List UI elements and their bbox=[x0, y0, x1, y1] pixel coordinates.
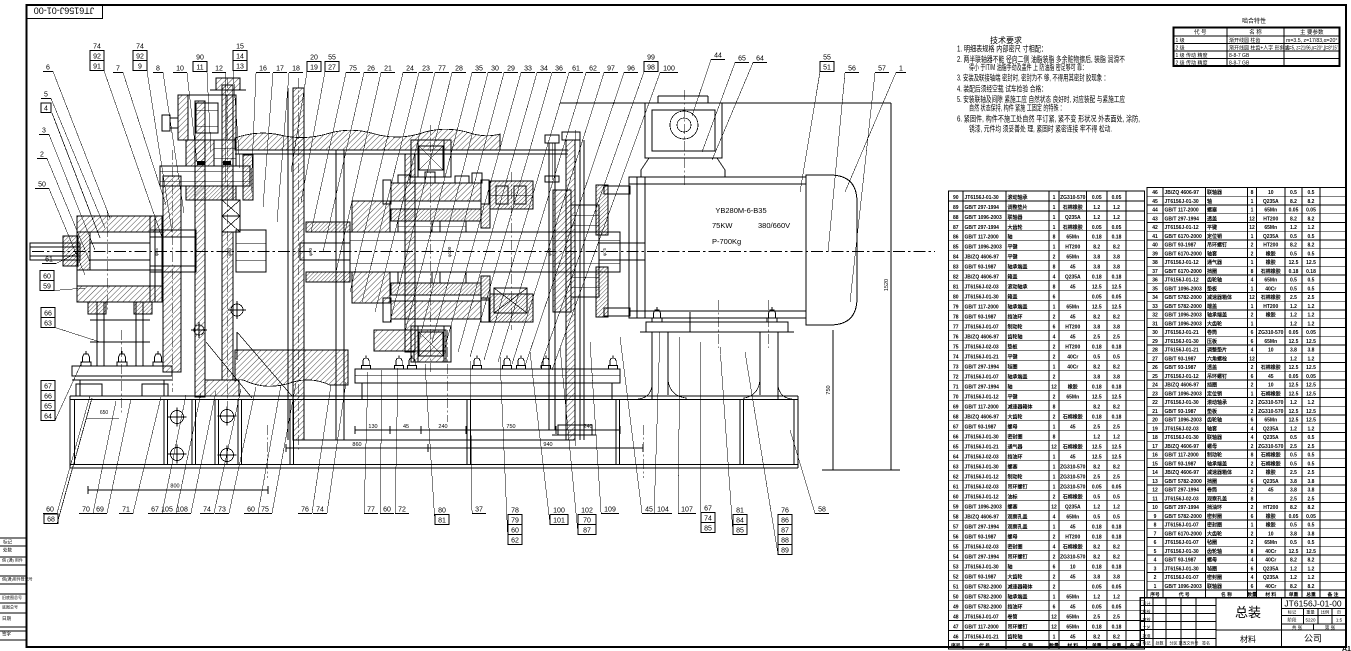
svg-text:10: 10 bbox=[1268, 348, 1274, 354]
gear web hole bbox=[228, 301, 246, 319]
svg-text:减速器箱体: 减速器箱体 bbox=[1207, 469, 1233, 476]
svg-text:42: 42 bbox=[1152, 225, 1158, 231]
svg-text:JT6156J-01-21: JT6156J-01-21 bbox=[965, 355, 999, 361]
balloon 64 bbox=[712, 56, 767, 161]
svg-text:Q235A: Q235A bbox=[1263, 566, 1279, 572]
svg-text:12.5: 12.5 bbox=[1112, 305, 1122, 311]
svg-text:12: 12 bbox=[215, 66, 223, 73]
svg-text:1 级: 1 级 bbox=[1176, 37, 1185, 44]
svg-text:65Mn: 65Mn bbox=[1066, 594, 1079, 600]
svg-text:JT6156J-01-30: JT6156J-01-30 bbox=[1165, 400, 1199, 406]
balloon stack 55 27 bbox=[301, 55, 339, 203]
balloon stack 99 98 bbox=[540, 55, 658, 369]
svg-text:1.2: 1.2 bbox=[1308, 313, 1315, 319]
svg-text:通气器: 通气器 bbox=[1008, 444, 1024, 451]
svg-text:密封圈: 密封圈 bbox=[1008, 434, 1023, 441]
svg-text:32: 32 bbox=[1152, 313, 1158, 319]
svg-text:61: 61 bbox=[953, 484, 959, 490]
svg-text:3.8: 3.8 bbox=[1113, 325, 1120, 331]
svg-text:φ90: φ90 bbox=[547, 248, 552, 256]
svg-text:2: 2 bbox=[1053, 255, 1056, 261]
svg-text:84: 84 bbox=[953, 255, 959, 261]
svg-text:1.2: 1.2 bbox=[1290, 566, 1297, 572]
svg-text:GB/T 5782-2000: GB/T 5782-2000 bbox=[1165, 514, 1202, 520]
svg-text:10: 10 bbox=[176, 66, 184, 73]
svg-text:平键: 平键 bbox=[1008, 244, 1019, 251]
svg-text:45: 45 bbox=[1070, 455, 1076, 461]
svg-text:1.2: 1.2 bbox=[1113, 215, 1120, 221]
svg-text:挡油环: 挡油环 bbox=[1206, 504, 1222, 511]
svg-text:0.5: 0.5 bbox=[1308, 278, 1315, 284]
svg-text:轴承端盖: 轴承端盖 bbox=[1008, 264, 1028, 271]
svg-text:6: 6 bbox=[1053, 295, 1056, 301]
svg-text:52: 52 bbox=[953, 574, 959, 580]
svg-text:JB/ZQ 4606-97: JB/ZQ 4606-97 bbox=[1165, 444, 1200, 450]
svg-text:2.5: 2.5 bbox=[1093, 425, 1100, 431]
svg-text:毡圈: 毡圈 bbox=[1007, 364, 1018, 371]
balloon 56 bbox=[828, 66, 859, 253]
base bolt hole 1 bbox=[168, 408, 187, 427]
svg-text:2: 2 bbox=[1251, 505, 1254, 511]
svg-text:JT6156J-01-30: JT6156J-01-30 bbox=[965, 464, 999, 470]
svg-text:挡油环: 挡油环 bbox=[1007, 603, 1023, 610]
svg-text:0.5: 0.5 bbox=[1290, 234, 1297, 240]
svg-text:860: 860 bbox=[352, 442, 361, 448]
svg-text:垫板: 垫板 bbox=[1008, 344, 1019, 351]
svg-text:吊环螺钉: 吊环螺钉 bbox=[1207, 373, 1227, 380]
svg-text:8.2: 8.2 bbox=[1093, 315, 1100, 321]
svg-text:12.5: 12.5 bbox=[1289, 365, 1299, 371]
svg-text:比例: 比例 bbox=[1321, 609, 1329, 616]
svg-text:密封圈: 密封圈 bbox=[1207, 574, 1222, 581]
svg-text:0.5: 0.5 bbox=[1308, 251, 1315, 257]
svg-text:JB/ZQ 4606-97: JB/ZQ 4606-97 bbox=[965, 514, 1000, 520]
svg-text:JT6156J-01-30: JT6156J-01-30 bbox=[965, 435, 999, 441]
svg-text:GB/T 6170-2000: GB/T 6170-2000 bbox=[1165, 269, 1202, 275]
svg-text:1: 1 bbox=[1251, 208, 1254, 214]
svg-text:3.8: 3.8 bbox=[1290, 488, 1297, 494]
balloon 67 at x155 bbox=[148, 395, 186, 514]
svg-text:12.5: 12.5 bbox=[1306, 409, 1316, 415]
svg-text:67: 67 bbox=[953, 425, 959, 431]
svg-text:GB/T 93-1987: GB/T 93-1987 bbox=[1165, 461, 1197, 467]
svg-text:34: 34 bbox=[1152, 295, 1158, 301]
balloon 76 at x305 bbox=[298, 385, 331, 514]
svg-text:GB/T 93-1987: GB/T 93-1987 bbox=[1165, 365, 1197, 371]
svg-text:1.2: 1.2 bbox=[1308, 575, 1315, 581]
svg-text:58: 58 bbox=[818, 507, 826, 514]
svg-text:12: 12 bbox=[1249, 216, 1255, 222]
svg-text:8.2: 8.2 bbox=[1290, 243, 1297, 249]
svg-text:1: 1 bbox=[1053, 524, 1056, 530]
svg-text:3.8: 3.8 bbox=[1308, 479, 1315, 485]
svg-text:81: 81 bbox=[736, 508, 744, 515]
drum hub bands bbox=[306, 222, 350, 282]
svg-text:总装: 总装 bbox=[1235, 605, 1261, 620]
svg-text:62: 62 bbox=[953, 474, 959, 480]
svg-text:挡圈: 挡圈 bbox=[1206, 268, 1217, 275]
svg-text:38: 38 bbox=[1152, 260, 1158, 266]
svg-text:12.5: 12.5 bbox=[1289, 260, 1299, 266]
svg-text:JT6156J-01-12: JT6156J-01-12 bbox=[965, 474, 999, 480]
svg-text:109: 109 bbox=[604, 507, 616, 514]
balloon 62 bbox=[498, 66, 600, 363]
svg-text:55: 55 bbox=[328, 55, 336, 62]
svg-text:17: 17 bbox=[276, 66, 284, 73]
balloon 108 at x182 bbox=[173, 391, 216, 514]
svg-text:0.18: 0.18 bbox=[1112, 534, 1122, 540]
svg-text:65Mn: 65Mn bbox=[1264, 540, 1277, 546]
drum shell lines bbox=[235, 150, 568, 440]
svg-text:68: 68 bbox=[47, 517, 55, 524]
svg-text:3.8: 3.8 bbox=[1308, 531, 1315, 537]
motor foot bolt left bbox=[652, 307, 662, 322]
svg-text:3.8: 3.8 bbox=[1093, 265, 1100, 271]
balloon 26 bbox=[323, 66, 378, 253]
svg-text:JT6156J-02-03: JT6156J-02-03 bbox=[965, 345, 999, 351]
svg-text:62: 62 bbox=[511, 538, 519, 545]
balloon 5 bbox=[41, 92, 105, 229]
svg-text:60: 60 bbox=[43, 274, 51, 281]
svg-text:12.5: 12.5 bbox=[1092, 445, 1102, 451]
svg-text:垫板: 垫板 bbox=[1207, 285, 1218, 292]
svg-text:旧底图总号: 旧底图总号 bbox=[2, 594, 22, 600]
svg-text:65Mn: 65Mn bbox=[1264, 418, 1277, 424]
svg-text:2: 2 bbox=[1251, 409, 1254, 415]
balloon 30 bbox=[420, 66, 502, 338]
svg-text:71: 71 bbox=[122, 507, 130, 514]
svg-text:2: 2 bbox=[1053, 584, 1056, 590]
svg-text:63: 63 bbox=[44, 321, 52, 328]
svg-text:单重: 单重 bbox=[1289, 591, 1299, 598]
svg-text:1: 1 bbox=[1251, 391, 1254, 397]
right BOM header row bbox=[1147, 590, 1346, 598]
svg-text:Q235A: Q235A bbox=[1263, 575, 1279, 581]
svg-text:JT6156J-01-00: JT6156J-01-00 bbox=[34, 5, 95, 15]
svg-text:8: 8 bbox=[1251, 190, 1254, 196]
svg-text:HT200: HT200 bbox=[1065, 534, 1080, 540]
svg-text:大齿轮: 大齿轮 bbox=[1008, 224, 1023, 231]
dimension row A bbox=[355, 424, 620, 434]
svg-text:轴套: 轴套 bbox=[1207, 425, 1217, 432]
flange bolt 7 bbox=[542, 356, 551, 370]
svg-text:1.2: 1.2 bbox=[1093, 205, 1100, 211]
svg-text:45: 45 bbox=[1070, 604, 1076, 610]
vertical dimension R bbox=[560, 103, 891, 470]
balloon stack 15 14 13 bbox=[233, 44, 247, 169]
svg-text:GB/T 93-1987: GB/T 93-1987 bbox=[965, 534, 997, 540]
svg-text:12: 12 bbox=[1249, 225, 1255, 231]
svg-text:2.5: 2.5 bbox=[1113, 474, 1120, 480]
svg-text:12.5: 12.5 bbox=[1306, 418, 1316, 424]
svg-text:41: 41 bbox=[1152, 234, 1158, 240]
svg-text:2: 2 bbox=[1053, 355, 1056, 361]
svg-text:JT6156J-02-03: JT6156J-02-03 bbox=[965, 544, 999, 550]
svg-text:1: 1 bbox=[1154, 584, 1157, 590]
svg-text:螺母: 螺母 bbox=[1008, 533, 1018, 540]
svg-text:40Cr: 40Cr bbox=[1265, 549, 1276, 555]
svg-text:JT6156J-01-07: JT6156J-01-07 bbox=[965, 375, 999, 381]
svg-text:GB/T 297-1994: GB/T 297-1994 bbox=[965, 385, 1000, 391]
svg-text:底图总号: 底图总号 bbox=[2, 604, 18, 610]
svg-text:12.5: 12.5 bbox=[1112, 285, 1122, 291]
svg-text:调整垫片: 调整垫片 bbox=[1207, 347, 1227, 354]
svg-text:GB/T 1096-2003: GB/T 1096-2003 bbox=[965, 245, 1002, 251]
svg-text:2.5: 2.5 bbox=[1093, 614, 1100, 620]
bearing below brake shaft bbox=[222, 200, 240, 232]
svg-text:0.18: 0.18 bbox=[1289, 269, 1299, 275]
svg-text:8.2: 8.2 bbox=[1113, 315, 1120, 321]
svg-text:标记: 标记 bbox=[3, 539, 12, 546]
svg-text:240: 240 bbox=[583, 424, 592, 430]
svg-text:2.5: 2.5 bbox=[1308, 470, 1315, 476]
balloon 21 bbox=[336, 66, 395, 273]
svg-text:石棉橡胶: 石棉橡胶 bbox=[1062, 543, 1083, 550]
balloon stack 78 79 60 62 bbox=[500, 357, 522, 545]
base left dim 650 bbox=[86, 410, 119, 419]
motor leg left bbox=[638, 332, 686, 400]
svg-text:3.8: 3.8 bbox=[1290, 479, 1297, 485]
svg-text:1 级 传动 精度: 1 级 传动 精度 bbox=[1176, 52, 1208, 59]
svg-text:4: 4 bbox=[1053, 275, 1056, 281]
flange bolt 8 bbox=[609, 356, 618, 370]
svg-text:JT6156J-01-30: JT6156J-01-30 bbox=[1165, 566, 1199, 572]
svg-text:87: 87 bbox=[583, 528, 591, 535]
svg-text:0.5: 0.5 bbox=[1290, 286, 1297, 292]
svg-text:平键: 平键 bbox=[1008, 394, 1019, 401]
svg-text:6: 6 bbox=[1251, 330, 1254, 336]
svg-text:卷筒: 卷筒 bbox=[1206, 329, 1217, 336]
svg-text:26: 26 bbox=[367, 66, 375, 73]
balloon 10 bbox=[173, 66, 197, 163]
svg-text:22: 22 bbox=[1152, 400, 1158, 406]
svg-text:24: 24 bbox=[406, 66, 414, 73]
svg-text:HT200: HT200 bbox=[1263, 304, 1278, 310]
balloon 71 at x126 bbox=[119, 397, 161, 514]
svg-text:0.05: 0.05 bbox=[1112, 295, 1122, 301]
svg-text:吊环螺钉: 吊环螺钉 bbox=[1207, 242, 1227, 249]
svg-text:44: 44 bbox=[1152, 208, 1158, 214]
svg-text:渐开线圆 柱齿: 渐开线圆 柱齿 bbox=[1229, 37, 1260, 44]
svg-text:88: 88 bbox=[953, 215, 959, 221]
svg-text:37: 37 bbox=[1152, 269, 1158, 275]
svg-text:1.2: 1.2 bbox=[1290, 313, 1297, 319]
svg-text:1.2: 1.2 bbox=[1308, 225, 1315, 231]
svg-text:750: 750 bbox=[506, 424, 515, 430]
svg-text:代 号: 代 号 bbox=[978, 642, 990, 649]
balloon 16 bbox=[251, 66, 270, 193]
svg-text:65Mn: 65Mn bbox=[1264, 208, 1277, 214]
svg-text:12.5: 12.5 bbox=[1289, 418, 1299, 424]
balloon stack 66 63 bbox=[41, 308, 100, 343]
svg-text:59: 59 bbox=[953, 504, 959, 510]
diameter labels bbox=[154, 246, 607, 257]
svg-text:0.18: 0.18 bbox=[1112, 235, 1122, 241]
svg-text:卷筒: 卷筒 bbox=[1007, 613, 1018, 620]
svg-text:GB/T 1096-2003: GB/T 1096-2003 bbox=[1165, 418, 1202, 424]
svg-text:平键: 平键 bbox=[1207, 224, 1218, 231]
svg-text:48: 48 bbox=[953, 614, 959, 620]
balloon 1 bbox=[845, 66, 906, 193]
svg-text:12.5: 12.5 bbox=[1112, 455, 1122, 461]
svg-text:3.8: 3.8 bbox=[1113, 574, 1120, 580]
balloon 75 at x265 bbox=[258, 383, 296, 514]
svg-text:12: 12 bbox=[1051, 385, 1057, 391]
svg-text:定位销: 定位销 bbox=[1206, 390, 1222, 397]
svg-text:4: 4 bbox=[1251, 558, 1254, 564]
svg-text:65Mn: 65Mn bbox=[1066, 255, 1079, 261]
svg-text:26: 26 bbox=[1152, 365, 1158, 371]
svg-text:92: 92 bbox=[136, 54, 144, 61]
lower bracket bbox=[411, 326, 451, 362]
right BOM table bbox=[1147, 188, 1346, 591]
svg-text:55: 55 bbox=[953, 544, 959, 550]
svg-text:90: 90 bbox=[953, 195, 959, 201]
svg-text:3.8: 3.8 bbox=[1308, 348, 1315, 354]
svg-text:12: 12 bbox=[1249, 356, 1255, 362]
svg-text:84: 84 bbox=[736, 518, 744, 525]
motor junction box bbox=[641, 96, 725, 177]
svg-text:750: 750 bbox=[826, 385, 832, 394]
svg-text:61: 61 bbox=[572, 66, 580, 73]
pedestal bolt mid bbox=[117, 351, 127, 366]
svg-text:3.8: 3.8 bbox=[1093, 255, 1100, 261]
svg-text:制动轮: 制动轮 bbox=[1008, 324, 1023, 331]
svg-text:12: 12 bbox=[1051, 504, 1057, 510]
gusset under drum flange bbox=[206, 332, 292, 398]
svg-text:3.8: 3.8 bbox=[1308, 488, 1315, 494]
svg-text:代 号: 代 号 bbox=[1194, 28, 1207, 36]
svg-text:Q235A: Q235A bbox=[1065, 215, 1081, 221]
svg-text:批准: 批准 bbox=[1143, 633, 1151, 639]
svg-text:滚动轴承: 滚动轴承 bbox=[1008, 284, 1028, 291]
svg-text:4: 4 bbox=[1251, 278, 1254, 284]
svg-text:观察孔盖: 观察孔盖 bbox=[1008, 513, 1028, 520]
svg-text:数量: 数量 bbox=[1049, 642, 1059, 649]
svg-text:工艺: 工艺 bbox=[1143, 625, 1151, 630]
svg-text:74: 74 bbox=[203, 507, 211, 514]
balloon 17 bbox=[263, 66, 287, 208]
left bearing housing bbox=[77, 216, 162, 302]
svg-text:单重: 单重 bbox=[1092, 642, 1102, 649]
svg-text:0.05: 0.05 bbox=[1112, 484, 1122, 490]
svg-text:ZG310-570: ZG310-570 bbox=[1258, 409, 1284, 415]
svg-text:m=3.5, z=17/83,α=20°: m=3.5, z=17/83,α=20° bbox=[1286, 38, 1338, 44]
svg-text:GB/T 1096-2003: GB/T 1096-2003 bbox=[1165, 321, 1202, 327]
svg-text:3.8: 3.8 bbox=[1113, 375, 1120, 381]
svg-text:联轴器: 联轴器 bbox=[1207, 434, 1223, 441]
svg-text:40Cr: 40Cr bbox=[1265, 558, 1276, 564]
balloon 105 at x167 bbox=[158, 393, 201, 514]
svg-text:4: 4 bbox=[1053, 514, 1056, 520]
svg-text:JT6156J-01-30: JT6156J-01-30 bbox=[1165, 339, 1199, 345]
svg-text:1: 1 bbox=[1053, 305, 1056, 311]
balloon 61 bbox=[42, 253, 77, 264]
svg-text:2.5: 2.5 bbox=[1290, 496, 1297, 502]
svg-text:55: 55 bbox=[823, 55, 831, 62]
svg-text:GB/T 1096-2003: GB/T 1096-2003 bbox=[965, 215, 1002, 221]
svg-text:0.5: 0.5 bbox=[1290, 453, 1297, 459]
svg-text:11: 11 bbox=[196, 65, 203, 72]
svg-text:88: 88 bbox=[781, 538, 789, 545]
balloon stack 76 86 87 88 89 bbox=[745, 352, 792, 555]
svg-text:JT6156J-01-30: JT6156J-01-30 bbox=[965, 295, 999, 301]
svg-text:19: 19 bbox=[310, 65, 318, 72]
svg-text:GB/T 117-2000: GB/T 117-2000 bbox=[965, 305, 999, 311]
svg-text:25: 25 bbox=[1152, 374, 1158, 380]
balloon 18 bbox=[277, 66, 303, 223]
svg-text:1: 1 bbox=[1251, 234, 1254, 240]
svg-text:27: 27 bbox=[328, 65, 336, 72]
svg-text:HT200: HT200 bbox=[1263, 505, 1278, 511]
svg-text:JT6156J-01-30: JT6156J-01-30 bbox=[1165, 435, 1199, 441]
svg-text:4: 4 bbox=[1053, 335, 1056, 341]
svg-text:GB/T 93-1987: GB/T 93-1987 bbox=[965, 574, 997, 580]
svg-text:6: 6 bbox=[1251, 566, 1254, 572]
flange bolt 1 bbox=[362, 356, 371, 370]
base bolt hole 3 bbox=[168, 445, 187, 464]
svg-text:0.5: 0.5 bbox=[1308, 190, 1315, 196]
svg-text:47: 47 bbox=[953, 624, 959, 630]
svg-text:1: 1 bbox=[1053, 464, 1056, 470]
svg-text:65Mn: 65Mn bbox=[1066, 614, 1079, 620]
svg-text:78: 78 bbox=[511, 508, 519, 515]
balloon 35 bbox=[405, 66, 486, 333]
svg-text:19: 19 bbox=[1152, 426, 1158, 432]
svg-text:JT6156J-01-21: JT6156J-01-21 bbox=[1165, 348, 1199, 354]
svg-text:GB/T 5782-2000: GB/T 5782-2000 bbox=[1165, 479, 1202, 485]
svg-text:GB/T 93-1987: GB/T 93-1987 bbox=[1165, 558, 1197, 564]
svg-text:调整垫片: 调整垫片 bbox=[1008, 204, 1028, 211]
balloon 58 at x822 bbox=[790, 430, 829, 514]
svg-text:73: 73 bbox=[953, 365, 959, 371]
svg-text:石棉橡胶: 石棉橡胶 bbox=[1260, 364, 1281, 371]
top bearing box bbox=[162, 95, 236, 140]
balloon 109 at x610 bbox=[590, 342, 619, 514]
svg-text:0.18: 0.18 bbox=[1112, 564, 1122, 570]
svg-text:螺母: 螺母 bbox=[1207, 443, 1217, 450]
svg-text:8.2: 8.2 bbox=[1093, 365, 1100, 371]
svg-text:9: 9 bbox=[1154, 514, 1157, 520]
brake wheel coupling bbox=[553, 185, 608, 317]
svg-text:0.05: 0.05 bbox=[1289, 208, 1299, 214]
svg-text:更改文件号: 更改文件号 bbox=[1179, 640, 1199, 646]
svg-text:GB/T 93-1987: GB/T 93-1987 bbox=[965, 265, 997, 271]
svg-text:2: 2 bbox=[1053, 345, 1056, 351]
svg-text:70: 70 bbox=[82, 507, 90, 514]
balloon 74 at x207 bbox=[200, 389, 241, 514]
svg-text:85: 85 bbox=[736, 528, 744, 535]
svg-text:21: 21 bbox=[1152, 409, 1158, 415]
svg-text:1: 1 bbox=[1251, 199, 1254, 205]
balloon 2 bbox=[37, 152, 90, 263]
svg-text:联轴器: 联轴器 bbox=[1008, 214, 1024, 221]
svg-text:材 料: 材 料 bbox=[1264, 591, 1276, 598]
svg-text:0.5: 0.5 bbox=[1308, 540, 1315, 546]
svg-text:4: 4 bbox=[1251, 348, 1254, 354]
svg-text:27: 27 bbox=[1152, 356, 1158, 362]
balloon 8 bbox=[153, 66, 184, 214]
svg-text:签名: 签名 bbox=[1202, 640, 1210, 646]
svg-text:34: 34 bbox=[540, 66, 548, 73]
svg-text:8.2: 8.2 bbox=[1308, 243, 1315, 249]
balloon 68 leader bbox=[57, 398, 92, 524]
svg-text:70: 70 bbox=[583, 518, 591, 525]
svg-text:JB/ZQ 4606-97: JB/ZQ 4606-97 bbox=[965, 255, 1000, 261]
svg-text:33: 33 bbox=[524, 66, 532, 73]
svg-text:18: 18 bbox=[1152, 435, 1158, 441]
svg-text:JT6156J-01-07: JT6156J-01-07 bbox=[1165, 540, 1199, 546]
